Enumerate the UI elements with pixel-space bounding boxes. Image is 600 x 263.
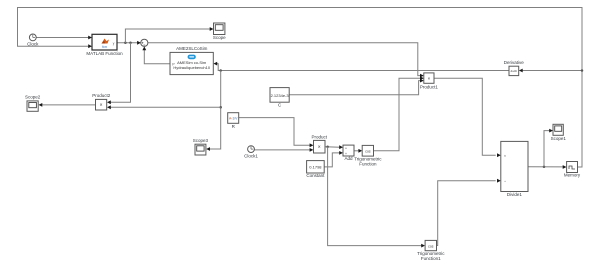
svg-text:Add: Add bbox=[344, 156, 353, 161]
svg-text:Hydrauliquebench10: Hydrauliquebench10 bbox=[173, 65, 210, 70]
wire R output right, down to Product in1 bbox=[239, 118, 311, 146]
arrowhead Product in2 bbox=[310, 148, 314, 152]
svg-text:cos: cos bbox=[428, 244, 434, 248]
trigonometric function block bbox=[354, 145, 382, 166]
wire tap up to Scope1 bbox=[544, 131, 550, 167]
svg-text:×: × bbox=[428, 76, 431, 81]
svg-text:AME2SLCoSim: AME2SLCoSim bbox=[176, 46, 208, 51]
wire MATLAB Function output to Sum bbox=[117, 42, 138, 44]
wire Product output down and right to Trigonometric Function1 bbox=[328, 147, 422, 246]
wire Derivative output left to AMESim right input bbox=[216, 64, 509, 71]
add block Add bbox=[343, 145, 354, 161]
wire feedback loop: Memory output up and across top, down left to MATLAB Function in2 bbox=[18, 8, 583, 168]
svg-text:Constant: Constant bbox=[306, 173, 325, 178]
svg-text:×: × bbox=[100, 103, 103, 109]
wire Trigonometric Function1 output up to Divide1 in2 bbox=[437, 181, 496, 246]
arrowhead Scope1 input bbox=[549, 129, 553, 133]
svg-text:0.1798: 0.1798 bbox=[309, 165, 322, 170]
arrowhead Sum left input bbox=[137, 41, 141, 45]
wire Sum output right and down to Product1 in1 bbox=[148, 43, 421, 76]
svg-text:fcn: fcn bbox=[102, 45, 107, 49]
clock Clock1 bbox=[244, 146, 258, 159]
wire tap down to Product2 in1 bbox=[110, 43, 131, 103]
wire AMESim P output to Sum bottom input bbox=[144, 50, 170, 64]
wire Divide1 output to Memory bbox=[528, 166, 564, 168]
wire Trigonometric Function output up to Product1 in2 bbox=[374, 78, 421, 151]
arrowhead Product2 in1 (points left) bbox=[107, 100, 111, 104]
svg-text:du/dt: du/dt bbox=[511, 69, 517, 73]
trigonometric function1 block bbox=[417, 240, 445, 261]
svg-text:Scope2: Scope2 bbox=[25, 94, 41, 99]
scope Scope3 (flipped) bbox=[193, 138, 209, 155]
arrowhead Trigonometric Function1 input bbox=[421, 244, 425, 248]
wire Product1 output down to Divide1 in1 bbox=[434, 78, 496, 155]
svg-text:Function: Function bbox=[359, 161, 377, 166]
constant C bbox=[270, 88, 289, 108]
fcn block R bbox=[228, 113, 239, 129]
AMESim co-sim block AME2SLCoSim bbox=[170, 46, 213, 75]
svg-text:Function1: Function1 bbox=[421, 256, 441, 261]
arrowhead Add in2 bbox=[339, 151, 343, 155]
divide block Divide1 bbox=[501, 141, 528, 197]
svg-text:Product: Product bbox=[311, 135, 327, 140]
derivative block (flipped) bbox=[504, 60, 525, 76]
wire Add output to Trigonometric Function bbox=[354, 150, 359, 152]
svg-text:Scope: Scope bbox=[213, 35, 226, 40]
arrowhead Product1 in3 bbox=[420, 79, 424, 83]
arrowhead Product2 in2 (points left) bbox=[107, 105, 111, 109]
wire down branch to Scope3 bbox=[210, 71, 221, 150]
sum junction bbox=[141, 39, 148, 46]
wire Clock1 output to Product in2 bbox=[254, 149, 310, 151]
svg-text:Derivative: Derivative bbox=[504, 60, 525, 65]
clock Clock bbox=[27, 34, 39, 47]
junction right vertical / derivative bbox=[581, 69, 584, 72]
wire Constant output up to Add in2 bbox=[324, 153, 340, 167]
svg-text:Divide1: Divide1 bbox=[507, 192, 523, 197]
junction tap up to Scope bbox=[124, 42, 127, 45]
product Product bbox=[311, 135, 327, 153]
svg-text:×: × bbox=[504, 154, 506, 158]
svg-text:Product2: Product2 bbox=[92, 93, 111, 98]
svg-text:Clock1: Clock1 bbox=[244, 153, 258, 158]
arrowhead Product1 in1 bbox=[420, 74, 424, 78]
arrowhead Product1 in2 bbox=[420, 76, 424, 80]
arrowhead Derivative input (points left) bbox=[519, 69, 523, 73]
scope Scope bbox=[213, 23, 226, 40]
product Product2 (flipped) bbox=[92, 93, 111, 110]
arrowhead Product in1 bbox=[310, 143, 314, 147]
arrowhead Scope3 input (points left) bbox=[206, 147, 210, 151]
arrowhead Add in1 bbox=[339, 145, 343, 149]
arrowhead Sum bottom input bbox=[142, 46, 146, 50]
arrowhead Scope input bbox=[210, 27, 214, 31]
junction derivative wire / down branch bbox=[219, 69, 222, 72]
arrowhead Scope2 input (points left) bbox=[39, 103, 43, 107]
scope Scope1 bbox=[551, 124, 567, 141]
svg-text:+: + bbox=[345, 146, 347, 150]
svg-text:MATLAB Function: MATLAB Function bbox=[86, 51, 123, 56]
junction tap up to Scope1 bbox=[543, 166, 546, 169]
svg-text:2.1234e-3: 2.1234e-3 bbox=[271, 93, 290, 98]
svg-text:Clock: Clock bbox=[27, 42, 39, 47]
arrowhead Memory input bbox=[563, 165, 567, 169]
junction tap down to Product2 in1 bbox=[129, 42, 132, 45]
svg-text:Scope3: Scope3 bbox=[193, 138, 209, 143]
constant Constant 0.1798 bbox=[306, 161, 325, 179]
svg-text:Scope1: Scope1 bbox=[551, 136, 567, 141]
scope Scope2 bbox=[25, 94, 41, 111]
product Product1 bbox=[420, 73, 439, 89]
wire tap up to Scope bbox=[125, 29, 210, 43]
wire branch to Product2 in2 bbox=[110, 106, 221, 108]
arrowhead MATLAB Function in1 bbox=[88, 36, 92, 40]
arrowhead Divide1 in2 bbox=[497, 179, 501, 183]
memory block bbox=[564, 162, 581, 178]
wire Clock to MATLAB Function in1 bbox=[36, 37, 89, 39]
svg-text:×: × bbox=[318, 145, 321, 151]
arrowhead MATLAB Function in2 bbox=[88, 44, 92, 48]
svg-text:÷: ÷ bbox=[504, 179, 506, 183]
junction Product output down branch bbox=[326, 146, 329, 149]
svg-text:cos: cos bbox=[365, 149, 371, 153]
svg-text:Memory: Memory bbox=[564, 173, 581, 178]
wire Product2 output to Scope2 bbox=[42, 104, 96, 106]
wire C output right, up to Product1 in3 bbox=[289, 81, 421, 95]
wire tap to Derivative input from right vertical bbox=[522, 70, 582, 72]
arrowhead AMESim right input (points left) bbox=[213, 62, 217, 66]
svg-text:Product1: Product1 bbox=[420, 84, 439, 89]
arrowhead Trigonometric Function input bbox=[358, 149, 362, 153]
svg-text:A-1/V: A-1/V bbox=[229, 117, 238, 121]
arrowhead Divide1 in1 bbox=[497, 153, 501, 157]
junction branch to Product2 in2 bbox=[219, 106, 222, 109]
wire Product output to Add in1 bbox=[325, 146, 340, 149]
MATLAB Function U1 bbox=[86, 34, 123, 56]
